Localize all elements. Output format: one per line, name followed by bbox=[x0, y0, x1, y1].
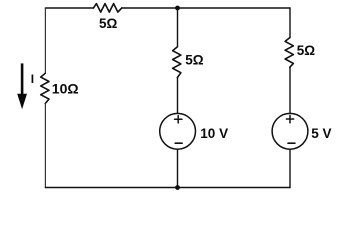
resistor 10Ω (left vertical) bbox=[41, 73, 49, 103]
wire: right branch lower segment (source V2 to corner) bbox=[289, 150, 291, 188]
svg-text:5Ω: 5Ω bbox=[185, 53, 204, 68]
wire: right branch upper segment bbox=[289, 8, 291, 38]
wire: top right segment (node B to top-right corner) bbox=[178, 7, 291, 9]
voltage source V2 5V (circle) bbox=[272, 113, 308, 149]
svg-text:I: I bbox=[31, 72, 34, 86]
wire: bottom right segment (node C to bottom-right corner) bbox=[178, 187, 291, 189]
node B: top junction dot bbox=[175, 6, 180, 11]
V2 minus sign bbox=[288, 142, 295, 144]
wire: top middle segment (resistor to node B) bbox=[122, 7, 178, 9]
V2 plus sign bbox=[286, 115, 293, 122]
wire: bottom left segment (corner to node C) bbox=[45, 187, 177, 189]
current arrow I (downward) bbox=[17, 63, 27, 109]
wire: middle branch lower segment (source V1 to node C) bbox=[177, 150, 179, 188]
wire: middle branch segment (resistor to source V1) bbox=[177, 78, 179, 113]
resistor 5Ω (middle vertical) bbox=[173, 47, 181, 78]
svg-text:5 V: 5 V bbox=[311, 126, 331, 141]
wire: top-left corner horizontal segment (node A to resistor) bbox=[45, 7, 93, 9]
svg-text:10 V: 10 V bbox=[200, 126, 228, 141]
node C: bottom junction dot bbox=[175, 185, 180, 190]
svg-text:5Ω: 5Ω bbox=[99, 16, 118, 31]
wire: left branch lower segment bbox=[44, 104, 46, 188]
voltage source V1 10V (circle) bbox=[160, 113, 196, 149]
V1 plus sign bbox=[175, 116, 182, 123]
V1 minus sign bbox=[175, 142, 182, 144]
wire: left branch upper segment bbox=[44, 8, 46, 73]
svg-text:10Ω: 10Ω bbox=[52, 81, 79, 97]
resistor 5Ω (right vertical) bbox=[285, 38, 293, 68]
wire: right branch segment (resistor to source V2) bbox=[289, 67, 291, 113]
resistor 5Ω (top horizontal) bbox=[94, 4, 122, 13]
svg-text:5Ω: 5Ω bbox=[297, 43, 316, 58]
wire: middle branch upper segment (node B to resistor) bbox=[177, 8, 179, 47]
